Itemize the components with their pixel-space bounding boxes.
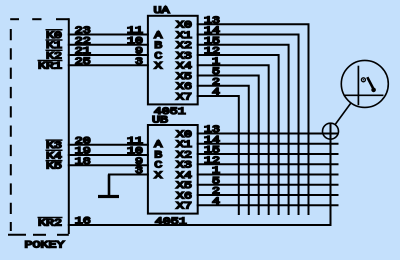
svg-text:X7: X7 [176, 200, 192, 212]
svg-text:KR2: KR2 [38, 217, 62, 229]
wire UB X3 (pin 12) matrix row [197, 163, 339, 165]
POKEY signal label KR1 (active low) [38, 60, 63, 72]
wire UA X5 (pin 5) matrix column [197, 76, 259, 216]
svg-text:4: 4 [212, 195, 220, 207]
wire UA X1 (pin 14) matrix column [197, 35, 299, 216]
svg-text:4: 4 [212, 86, 220, 98]
key switch moving contact dot [371, 88, 376, 93]
magnified column wire [357, 66, 359, 106]
magnified view circle [341, 60, 388, 107]
wire UA X6 (pin 2) matrix column [197, 86, 249, 215]
POKEY signal label K4 (active low) [46, 150, 63, 162]
wire K3: POKEY pin 20 to UB pin 11 [68, 144, 149, 146]
wire UB X7 (pin 4) matrix row [197, 204, 339, 206]
wire K0: POKEY pin 23 to UA pin 11 [68, 34, 149, 36]
svg-text:X: X [154, 169, 162, 181]
POKEY signal label K1 (active low) [46, 40, 63, 52]
svg-text:16: 16 [75, 215, 91, 227]
POKEY signal label K2 (active low) [46, 50, 63, 62]
wire UA X3 (pin 12) matrix column [197, 55, 279, 215]
key switch arm [367, 77, 374, 90]
POKEY right edge (solid) [68, 18, 70, 234]
wire K4: POKEY pin 19 to UB pin 10 [68, 154, 149, 156]
wire ground to UB pin 3 (X common) [108, 174, 149, 176]
POKEY bottom edge (dashed) [8, 234, 26, 236]
POKEY left edge (dashed) [10, 29, 12, 231]
wire KR2: POKEY pin 16 along bottom and up to highlighted crosspoint [68, 123, 331, 225]
wire UB X6 (pin 2) matrix row [197, 194, 339, 196]
ground riser [108, 175, 111, 196]
svg-text:25: 25 [75, 55, 91, 67]
POKEY signal label K5 (active low) [46, 160, 63, 172]
POKEY signal label KR2 (active low) [38, 217, 63, 229]
svg-text:3: 3 [135, 165, 143, 177]
wire UA X2 (pin 15) matrix column [197, 45, 289, 215]
POKEY signal label K0 (active low) [46, 29, 63, 41]
callout connector line [335, 103, 351, 125]
svg-text:K5: K5 [46, 160, 62, 172]
wire KR1: POKEY pin 25 to UA pin 3 [68, 64, 149, 66]
svg-text:X: X [154, 60, 162, 72]
magnified row wire [344, 94, 384, 96]
svg-text:3: 3 [135, 55, 143, 67]
POKEY top edge (dashed) [10, 18, 19, 20]
key switch fixed contact [361, 78, 365, 82]
wire UB X1 (pin 14) matrix row [197, 143, 339, 145]
wire UB X5 (pin 5) matrix row [197, 184, 339, 186]
wire K1: POKEY pin 22 to UA pin 10 [68, 44, 149, 46]
wire UA X0 (pin 13) matrix column [197, 24, 309, 215]
svg-text:POKEY: POKEY [25, 239, 65, 251]
IC UB box (4051 analog multiplexer) [148, 125, 198, 214]
wire UA X4 (pin 1) matrix column [197, 65, 269, 215]
wire UA X7 (pin 4) matrix column [197, 96, 239, 215]
svg-text:X7: X7 [176, 91, 192, 103]
wire UB X0 (pin 13) matrix row [197, 133, 339, 135]
IC UA box (4051 analog multiplexer) [148, 16, 198, 105]
svg-text:KR1: KR1 [38, 60, 62, 72]
svg-text:18: 18 [75, 155, 91, 167]
wire K5: POKEY pin 18 to UB pin 9 [68, 164, 149, 166]
wire UB X4 (pin 1) matrix row [197, 174, 339, 176]
wire UB X2 (pin 15) matrix row [197, 153, 339, 155]
svg-text:UB: UB [152, 114, 168, 126]
ground bar [98, 195, 119, 198]
POKEY signal label K3 (active low) [46, 140, 63, 152]
wire K2: POKEY pin 21 to UA pin 9 [68, 54, 149, 56]
svg-text:UA: UA [154, 5, 171, 17]
crosspoint highlight circle [323, 123, 339, 139]
